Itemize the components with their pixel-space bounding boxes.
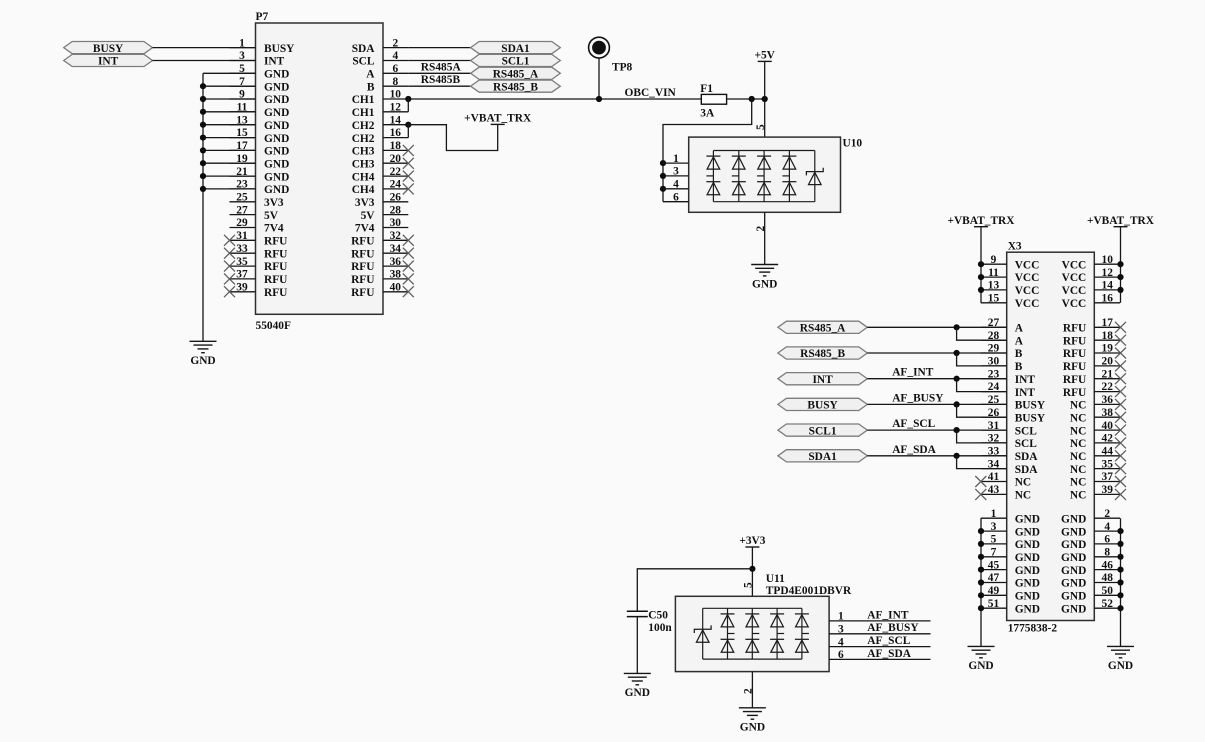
svg-text:GND: GND [1061,552,1086,564]
svg-text:46: 46 [1102,559,1114,571]
junction [200,173,206,179]
svg-text:14: 14 [390,114,402,126]
junction [978,592,984,598]
svg-text:P7: P7 [256,11,269,23]
wire GND bus left [980,518,982,646]
svg-text:2: 2 [1104,508,1110,520]
svg-text:VCC: VCC [1015,259,1040,271]
net label RS485_B [778,347,867,360]
net label BUSY [778,398,867,411]
net label RS485_A [471,67,561,80]
wire [153,47,256,49]
svg-text:GND: GND [264,171,289,183]
svg-text:50: 50 [1102,585,1114,597]
no-connect [1115,437,1126,448]
svg-text:BUSY: BUSY [1015,400,1046,412]
svg-text:39: 39 [1102,484,1114,496]
wire VCC bus right [1120,227,1122,303]
svg-text:TP8: TP8 [612,61,633,73]
junction [954,427,960,433]
svg-text:RS485_A: RS485_A [493,69,539,81]
wire [867,403,1006,405]
svg-text:GND: GND [1061,539,1086,551]
svg-text:GND: GND [1015,513,1040,525]
junction [596,96,602,102]
svg-text:SCL: SCL [352,56,375,68]
svg-text:5: 5 [755,124,767,130]
svg-text:34: 34 [390,243,402,255]
no-connect pin 20 [403,158,414,169]
wire [957,327,1007,340]
svg-text:9: 9 [991,254,997,266]
junction [660,173,666,179]
no-connect pin 41 [975,476,986,487]
svg-text:29: 29 [236,217,248,229]
svg-text:RFU: RFU [1063,348,1086,360]
junction [978,528,984,534]
svg-text:RFU: RFU [351,287,374,299]
junction [978,274,984,280]
svg-text:RFU: RFU [264,274,287,286]
no-connect pin 34 [403,248,414,259]
pin 2 wire [764,212,766,264]
svg-text:1775838-2: 1775838-2 [1008,623,1058,635]
ground [751,265,778,291]
svg-text:AF_INT: AF_INT [867,609,909,621]
wire +5V to U10 pin 5 [764,61,766,137]
svg-text:RS485B: RS485B [421,74,461,86]
svg-text:7V4: 7V4 [355,223,375,235]
svg-text:NC: NC [1015,477,1031,489]
svg-text:+3V3: +3V3 [739,535,765,547]
wire [408,85,470,87]
net label RS485_B [471,80,561,93]
no-connect pin 18 [403,145,414,156]
svg-text:6: 6 [1104,534,1110,546]
svg-text:GND: GND [264,146,289,158]
no-connect pin 38 [403,273,414,284]
wire [203,175,256,177]
svg-text:TPD4E001DBVR: TPD4E001DBVR [766,585,852,597]
net label BUSY [64,42,153,55]
wire [957,379,1007,392]
svg-text:11: 11 [988,267,999,279]
no-connect pin 31 [224,235,235,246]
svg-text:3V3: 3V3 [264,197,284,209]
no-connect [1115,489,1126,500]
junction [762,96,768,102]
svg-text:U11: U11 [766,573,785,585]
junction [1117,592,1123,598]
wire [867,326,1006,328]
svg-text:NC: NC [1070,477,1086,489]
connector X3 [981,240,1120,634]
svg-text:NC: NC [1070,412,1086,424]
svg-text:44: 44 [1102,446,1114,458]
junction [978,567,984,573]
no-connect [1115,335,1126,346]
svg-text:+VBAT_TRX: +VBAT_TRX [1087,215,1155,227]
svg-text:RFU: RFU [1063,374,1086,386]
junction [978,287,984,293]
wire [829,620,930,622]
svg-text:40: 40 [390,281,402,293]
wire [407,99,409,112]
svg-text:GND: GND [264,107,289,119]
svg-text:RS485_A: RS485_A [800,323,846,335]
svg-text:30: 30 [390,217,402,229]
svg-text:VCC: VCC [1015,298,1040,310]
svg-text:38: 38 [1102,407,1114,419]
svg-text:6: 6 [392,63,398,75]
svg-text:RFU: RFU [264,248,287,260]
svg-text:22: 22 [1102,381,1114,393]
no-connect pin 40 [403,286,414,297]
wire [203,85,256,87]
wire [867,378,1006,380]
no-connect pin 43 [975,489,986,500]
svg-text:VCC: VCC [1062,285,1087,297]
svg-text:3: 3 [673,166,679,178]
svg-text:AF_BUSY: AF_BUSY [892,392,944,404]
wire [203,111,256,113]
no-connect pin 22 [403,171,414,182]
svg-text:GND: GND [1015,526,1040,538]
svg-text:SDA: SDA [352,43,376,55]
wire [408,47,470,49]
svg-text:47: 47 [988,572,1000,584]
svg-text:AF_SDA: AF_SDA [867,648,911,660]
svg-text:40: 40 [1102,420,1114,432]
no-connect pin 24 [403,183,414,194]
svg-text:RFU: RFU [351,261,374,273]
svg-text:CH2: CH2 [352,133,375,145]
svg-text:1: 1 [838,611,844,623]
svg-text:BUSY: BUSY [1015,412,1046,424]
svg-text:B: B [1015,361,1023,373]
capacitor C50 [627,609,673,634]
junction [1117,605,1123,611]
wire [867,455,1006,457]
svg-text:1: 1 [673,153,679,165]
svg-text:4: 4 [392,50,398,62]
svg-text:CH3: CH3 [352,158,375,170]
junction [1117,554,1123,560]
junction [200,160,206,166]
svg-text:17: 17 [1102,317,1114,329]
ground [624,673,651,699]
svg-text:RFU: RFU [264,236,287,248]
svg-text:36: 36 [390,256,402,268]
no-connect pin 32 [403,235,414,246]
no-connect [1115,463,1126,474]
junction [954,376,960,382]
svg-text:38: 38 [390,269,402,281]
svg-text:GND: GND [1015,552,1040,564]
svg-text:GND: GND [1015,578,1040,590]
junction [1117,287,1123,293]
svg-text:SCL: SCL [1015,425,1038,437]
net label SCL1 [471,54,561,67]
svg-text:INT: INT [264,56,285,68]
svg-text:RFU: RFU [351,248,374,260]
svg-text:VCC: VCC [1062,272,1087,284]
wire [829,646,930,648]
svg-text:3: 3 [838,624,844,636]
junction [978,261,984,267]
svg-text:8: 8 [392,76,398,88]
wire [203,137,256,139]
junction [954,324,960,330]
no-connect [1115,386,1126,397]
svg-text:CH1: CH1 [352,107,375,119]
svg-text:GND: GND [1061,513,1086,525]
wire [203,72,256,74]
wire GND bus [202,73,204,341]
svg-text:RFU: RFU [1063,387,1086,399]
net label SDA1 [778,450,867,463]
no-connect pin 33 [224,248,235,259]
svg-text:RFU: RFU [264,287,287,299]
svg-text:F1: F1 [700,83,713,95]
svg-text:RFU: RFU [1063,335,1086,347]
svg-text:RS485_B: RS485_B [800,348,845,360]
svg-text:52: 52 [1102,598,1114,610]
wire [829,633,930,635]
wire [751,547,753,596]
wire [867,429,1006,431]
net label SDA1 [471,42,561,55]
wire [727,98,765,100]
wire [598,58,600,99]
net label INT [64,54,153,67]
svg-text:AF_INT: AF_INT [892,367,934,379]
junction [1117,567,1123,573]
svg-text:4: 4 [838,636,844,648]
svg-text:AF_SCL: AF_SCL [892,418,935,430]
connector P7 [230,11,409,332]
svg-text:6: 6 [673,191,679,203]
svg-text:21: 21 [1102,368,1114,380]
junction [1117,261,1123,267]
svg-text:NC: NC [1070,490,1086,502]
svg-text:GND: GND [1061,603,1086,615]
svg-text:SCL: SCL [1015,438,1038,450]
svg-text:7V4: 7V4 [264,223,284,235]
svg-text:4: 4 [673,179,679,191]
svg-text:NC: NC [1070,400,1086,412]
ground [739,708,766,734]
svg-text:GND: GND [264,133,289,145]
svg-text:13: 13 [988,280,1000,292]
svg-text:A: A [1015,335,1024,347]
svg-text:B: B [1015,348,1023,360]
net label INT [778,373,867,386]
wire OBC_VIN [408,98,701,100]
svg-text:8: 8 [1104,547,1110,559]
svg-text:GND: GND [1015,539,1040,551]
svg-text:SDA: SDA [1015,451,1039,463]
svg-text:35: 35 [1102,458,1114,470]
svg-text:GND: GND [968,660,993,672]
svg-text:16: 16 [390,127,402,139]
svg-text:2: 2 [392,37,398,49]
svg-text:NC: NC [1015,490,1031,502]
junction [200,122,206,128]
svg-text:18: 18 [390,140,402,152]
no-connect pin 35 [224,261,235,272]
svg-text:BUSY: BUSY [93,43,124,55]
svg-text:5: 5 [743,582,755,588]
svg-text:U10: U10 [843,138,863,150]
junction [954,350,960,356]
junction [660,160,666,166]
svg-text:CH4: CH4 [352,184,375,196]
test point TP8 [589,37,633,73]
wire [957,404,1007,417]
svg-text:GND: GND [1061,578,1086,590]
junction [749,566,755,572]
junction [200,83,206,89]
svg-text:C50: C50 [648,609,668,621]
svg-text:RFU: RFU [351,274,374,286]
svg-text:OBC_VIN: OBC_VIN [625,87,677,99]
wire VCC bus left [980,227,982,303]
svg-text:39: 39 [236,281,248,293]
wire [203,124,256,126]
no-connect pin 36 [403,261,414,272]
svg-text:14: 14 [1102,280,1114,292]
no-connect pin 37 [224,273,235,284]
junction [978,605,984,611]
svg-text:32: 32 [390,230,402,242]
svg-text:31: 31 [236,230,248,242]
svg-text:GND: GND [264,120,289,132]
junction [200,186,206,192]
junction [954,453,960,459]
wire [408,60,470,62]
svg-text:B: B [367,81,375,93]
svg-text:GND: GND [1015,565,1040,577]
svg-text:51: 51 [988,598,1000,610]
ESD diode array U10 [663,137,862,212]
junction [200,147,206,153]
svg-text:RFU: RFU [1063,361,1086,373]
svg-text:22: 22 [390,166,402,178]
junction [405,96,411,102]
power +VBAT_TRX [947,215,1015,227]
svg-text:+VBAT_TRX: +VBAT_TRX [947,215,1015,227]
junction [200,135,206,141]
svg-text:45: 45 [988,559,1000,571]
svg-text:28: 28 [390,204,402,216]
svg-text:CH4: CH4 [352,171,375,183]
svg-text:BUSY: BUSY [807,400,838,412]
svg-text:GND: GND [1015,591,1040,603]
ground [968,646,995,672]
svg-text:7: 7 [991,547,997,559]
no-connect [1115,412,1126,423]
no-connect [1115,425,1126,436]
svg-text:VCC: VCC [1062,298,1087,310]
no-connect [1115,399,1126,410]
wire [203,188,256,190]
svg-text:NC: NC [1070,425,1086,437]
svg-text:INT: INT [1015,374,1036,386]
svg-text:VCC: VCC [1015,285,1040,297]
ground [190,341,217,367]
no-connect [1115,360,1126,371]
power +VBAT_TRX [464,113,532,125]
junction [200,109,206,115]
junction [978,554,984,560]
svg-text:INT: INT [812,374,833,386]
pin 2 wire [751,672,753,708]
no-connect [1115,322,1126,333]
svg-text:26: 26 [390,192,402,204]
svg-text:10: 10 [390,89,402,101]
svg-text:AF_BUSY: AF_BUSY [867,622,919,634]
svg-text:GND: GND [1015,603,1040,615]
wire [957,456,1007,469]
wire [203,162,256,164]
no-connect [1115,476,1126,487]
svg-text:GND: GND [1108,660,1133,672]
svg-text:BUSY: BUSY [264,43,295,55]
svg-text:48: 48 [1102,572,1114,584]
svg-text:43: 43 [988,484,1000,496]
ground [1107,646,1134,672]
svg-text:SDA1: SDA1 [501,43,530,55]
svg-text:GND: GND [190,355,215,367]
svg-text:AF_SDA: AF_SDA [892,444,936,456]
wire [636,617,638,674]
svg-text:+5V: +5V [754,50,775,62]
svg-text:NC: NC [1070,451,1086,463]
junction [405,122,411,128]
svg-text:41: 41 [988,471,1000,483]
svg-text:GND: GND [740,722,765,734]
wire [829,658,930,660]
svg-text:VCC: VCC [1015,272,1040,284]
svg-text:RS485_B: RS485_B [493,81,538,93]
power +5V [754,50,775,62]
no-connect [1115,373,1126,384]
junction [200,96,206,102]
svg-text:37: 37 [1102,471,1114,483]
svg-text:3A: 3A [700,107,715,119]
svg-text:3V3: 3V3 [355,197,375,209]
svg-text:5V: 5V [264,210,279,222]
junction [978,541,984,547]
svg-text:INT: INT [98,56,119,68]
svg-text:20: 20 [1102,356,1114,368]
svg-text:GND: GND [264,81,289,93]
svg-text:35: 35 [236,256,248,268]
wire [867,352,1006,354]
svg-text:INT: INT [1015,387,1036,399]
svg-text:4: 4 [1104,521,1110,533]
svg-text:16: 16 [1102,292,1114,304]
svg-text:5V: 5V [361,210,376,222]
svg-text:19: 19 [1102,343,1114,355]
junction [1117,528,1123,534]
svg-text:GND: GND [752,278,777,290]
svg-text:A: A [1015,323,1024,335]
wire [408,124,497,150]
svg-text:SDA: SDA [1015,464,1039,476]
svg-text:20: 20 [390,153,402,165]
